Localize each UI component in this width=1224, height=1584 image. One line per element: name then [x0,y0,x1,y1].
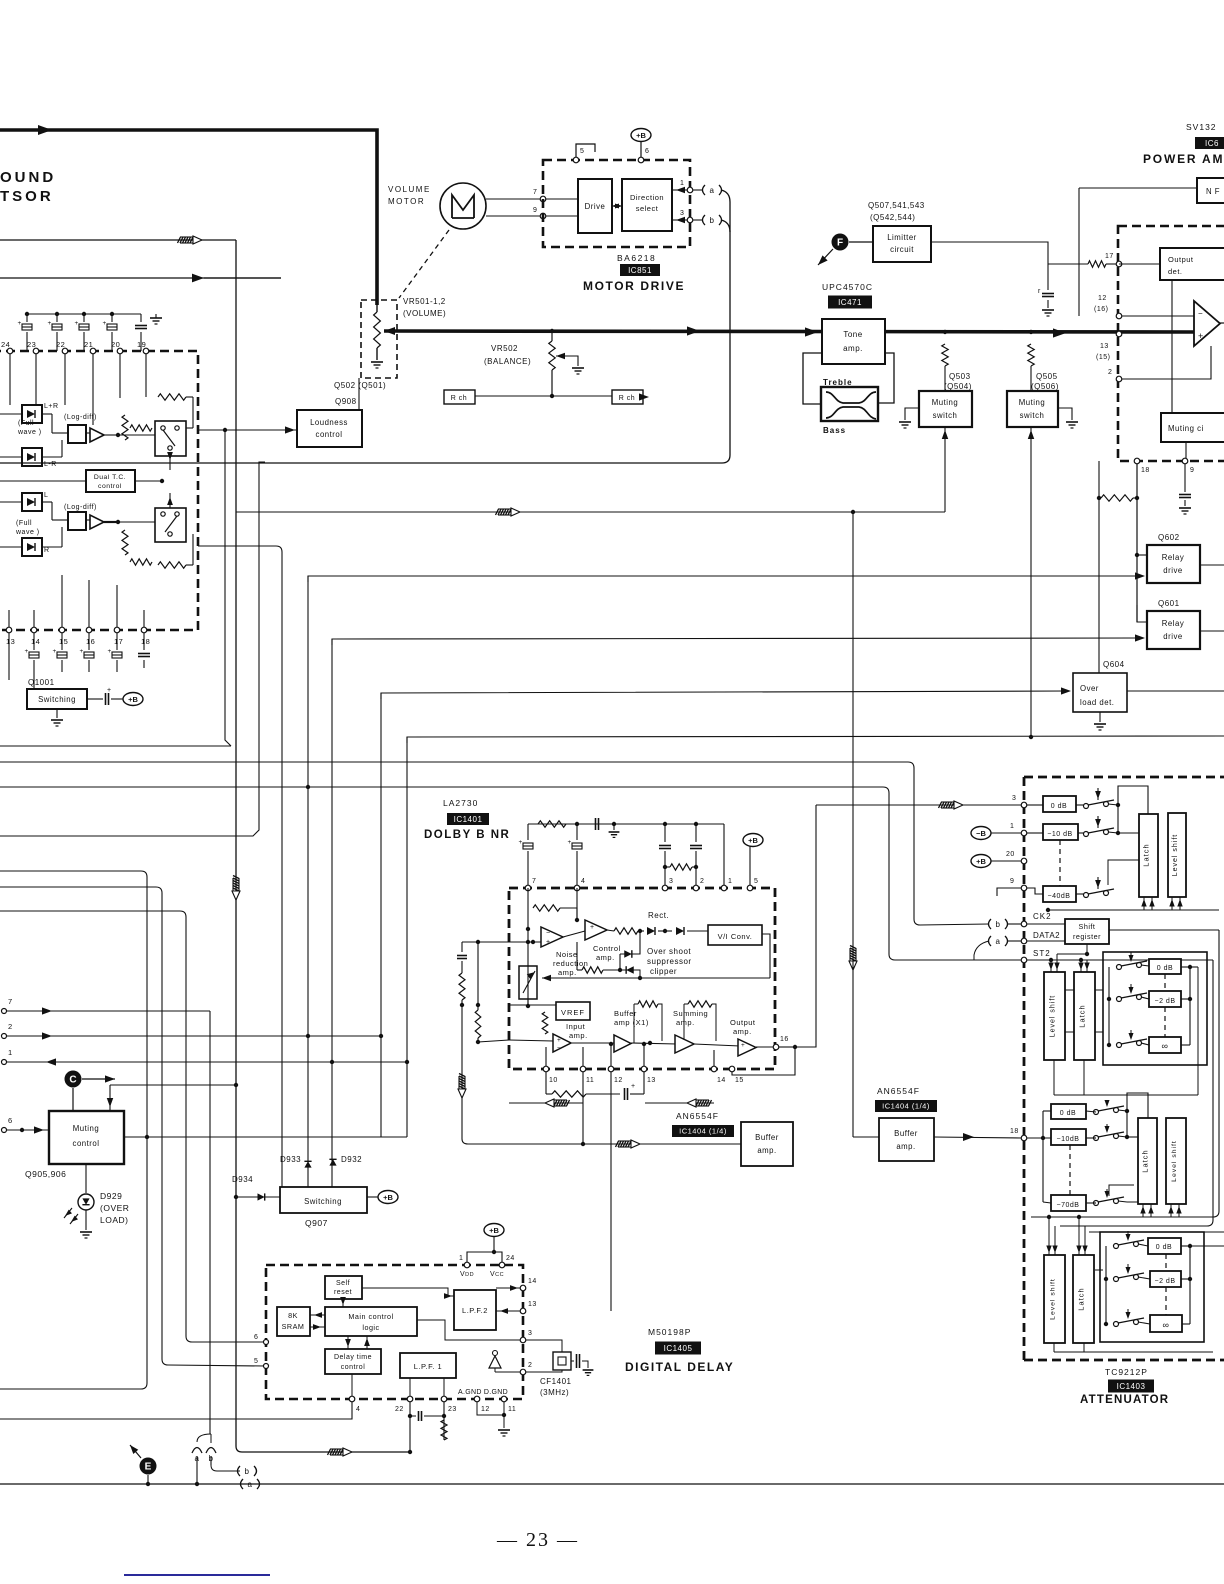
svg-text:1: 1 [8,1048,13,1057]
svg-text:+B: +B [383,1193,393,1202]
svg-text:ST2: ST2 [1033,949,1051,958]
svg-text:Loudness: Loudness [310,418,348,427]
svg-text:Q602: Q602 [1158,533,1180,542]
svg-text:0 dB: 0 dB [1060,1110,1076,1117]
svg-text:IC1405: IC1405 [664,1344,693,1353]
svg-text:−B: −B [976,829,986,838]
svg-text:D933: D933 [280,1155,301,1164]
svg-text:Level shift: Level shift [1050,1278,1057,1320]
svg-text:+: + [519,839,523,846]
svg-text:wave ): wave ) [17,429,42,436]
svg-text:D929: D929 [100,1191,122,1201]
svg-text:a: a [248,1480,253,1489]
svg-text:MOTOR DRIVE: MOTOR DRIVE [583,279,685,293]
svg-text:∞: ∞ [1162,1041,1169,1051]
svg-text:Main control: Main control [348,1312,393,1321]
svg-text:5: 5 [754,878,758,885]
svg-text:Treble: Treble [823,378,853,387]
svg-text:9: 9 [533,207,537,214]
svg-text:IC471: IC471 [838,298,862,307]
svg-text:amp.: amp. [757,1146,776,1155]
svg-text:wave ): wave ) [15,529,40,536]
svg-text:IC1404 (1/4): IC1404 (1/4) [882,1102,930,1111]
svg-text:M50198P: M50198P [648,1327,691,1337]
svg-text:12: 12 [614,1077,623,1084]
svg-text:Q908: Q908 [335,397,357,406]
svg-text:IC1404 (1/4): IC1404 (1/4) [679,1127,727,1136]
svg-text:−: − [546,930,551,937]
svg-text:−: − [557,1045,561,1052]
svg-text:(Q542,544): (Q542,544) [870,213,915,222]
svg-text:(Log-diff): (Log-diff) [64,414,97,421]
svg-text:+: + [48,320,52,327]
svg-text:SRAM: SRAM [282,1322,305,1331]
svg-text:1: 1 [459,1255,463,1262]
svg-text:18: 18 [141,637,150,646]
svg-text:E: E [145,1462,152,1473]
svg-text:13: 13 [6,637,15,646]
svg-text:9: 9 [1010,878,1014,885]
svg-text:Q507,541,543: Q507,541,543 [868,201,925,210]
svg-text:17: 17 [114,637,123,646]
svg-text:VOLUME: VOLUME [388,185,431,194]
svg-text:Level shift: Level shift [1172,834,1179,877]
svg-text:Switching: Switching [38,695,76,704]
svg-text:2: 2 [700,878,704,885]
svg-text:+: + [80,648,84,655]
svg-text:DIGITAL DELAY: DIGITAL DELAY [625,1360,734,1374]
svg-text:Level shift: Level shift [1050,995,1057,1038]
svg-text:TC9212P: TC9212P [1105,1367,1148,1377]
svg-text:(Full: (Full [16,520,32,527]
svg-text:5: 5 [254,1358,258,1365]
svg-text:3: 3 [669,878,673,885]
svg-text:−2 dB: −2 dB [1155,998,1176,1005]
svg-text:6: 6 [645,148,649,155]
svg-text:+: + [590,924,595,931]
svg-text:(VOLUME): (VOLUME) [403,309,446,318]
svg-text:4: 4 [581,878,585,885]
svg-text:— 23 —: — 23 — [496,1529,579,1551]
svg-text:0 dB: 0 dB [1051,803,1067,810]
svg-text:13: 13 [1100,343,1109,350]
svg-text:Limitter: Limitter [887,233,917,242]
svg-text:+: + [25,648,29,655]
svg-text:IC851: IC851 [628,266,652,275]
svg-text:Q907: Q907 [305,1218,328,1228]
svg-text:−40dB: −40dB [1048,893,1071,900]
svg-text:5: 5 [580,148,584,155]
svg-text:Q502 (Q501): Q502 (Q501) [334,381,386,390]
svg-text:∞: ∞ [1163,1320,1170,1330]
svg-text:Latch: Latch [1077,1287,1086,1310]
svg-text:Relay: Relay [1162,619,1184,628]
svg-text:(Q504): (Q504) [944,382,972,391]
svg-text:r: r [1038,288,1041,295]
svg-text:BA6218: BA6218 [617,253,656,263]
svg-text:Relay: Relay [1162,553,1184,562]
svg-text:IC6: IC6 [1205,139,1219,148]
svg-text:15: 15 [59,637,68,646]
svg-text:(OVER: (OVER [100,1203,129,1213]
svg-text:amp.: amp. [596,953,615,962]
svg-text:14: 14 [528,1278,537,1285]
svg-text:(16): (16) [1094,306,1108,313]
svg-text:R: R [44,547,50,554]
svg-text:17: 17 [1105,253,1114,260]
svg-text:−70dB: −70dB [1057,1202,1080,1209]
svg-text:Control: Control [593,944,621,953]
svg-text:16: 16 [86,637,95,646]
svg-text:control: control [341,1364,366,1371]
svg-text:Delay time: Delay time [334,1354,372,1361]
svg-text:(3MHz): (3MHz) [540,1388,569,1397]
svg-text:21: 21 [84,340,93,349]
svg-text:b: b [996,920,1001,929]
svg-text:+B: +B [748,836,758,845]
svg-text:0 dB: 0 dB [1157,965,1173,972]
svg-text:L.P.F. 1: L.P.F. 1 [414,1362,442,1371]
svg-text:Shift: Shift [1079,922,1096,931]
svg-text:CF1401: CF1401 [540,1377,572,1386]
svg-text:control: control [98,483,122,490]
svg-text:Q601: Q601 [1158,599,1180,608]
svg-text:20: 20 [1006,851,1015,858]
svg-text:14: 14 [31,637,40,646]
svg-text:+B: +B [976,857,986,866]
svg-text:L+R: L+R [44,403,59,410]
svg-text:7: 7 [532,878,536,885]
svg-text:Level shift: Level shift [1171,1140,1178,1182]
svg-text:6: 6 [8,1116,13,1125]
svg-text:+: + [741,1042,745,1049]
svg-text:(15): (15) [1096,354,1110,361]
svg-text:Output: Output [730,1018,756,1027]
svg-text:MOTOR: MOTOR [388,197,425,206]
svg-text:C: C [69,1075,76,1086]
svg-text:LOAD): LOAD) [100,1215,128,1225]
svg-text:R ch: R ch [619,395,635,402]
svg-text:Q505: Q505 [1036,372,1058,381]
svg-text:14: 14 [717,1077,726,1084]
svg-text:Summing: Summing [673,1009,708,1018]
svg-text:reduction: reduction [553,959,588,968]
svg-text:Latch: Latch [1142,843,1151,866]
svg-text:D932: D932 [341,1155,362,1164]
svg-text:2: 2 [1108,369,1112,376]
svg-text:Dual T.C.: Dual T.C. [94,474,126,481]
svg-text:UPC4570C: UPC4570C [822,282,873,292]
svg-text:(Full: (Full [18,420,34,427]
svg-text:2: 2 [8,1022,13,1031]
svg-text:IC1401: IC1401 [454,815,483,824]
svg-text:Latch: Latch [1078,1004,1087,1027]
svg-text:logic: logic [362,1323,379,1332]
svg-text:Latch: Latch [1141,1149,1150,1172]
svg-text:Output: Output [1168,255,1194,264]
svg-text:1: 1 [728,878,732,885]
svg-text:det.: det. [1168,267,1183,276]
svg-text:0 dB: 0 dB [1156,1244,1172,1251]
svg-text:6: 6 [254,1334,258,1341]
svg-text:N F: N F [1206,187,1220,196]
svg-text:Over: Over [1080,684,1099,693]
svg-text:8K: 8K [288,1311,298,1320]
svg-text:Buffer: Buffer [614,1009,637,1018]
svg-text:select: select [636,204,659,213]
svg-text:(Q506): (Q506) [1031,382,1059,391]
svg-text:12: 12 [1098,295,1107,302]
svg-text:+B: +B [489,1226,499,1235]
svg-text:+: + [546,939,551,946]
svg-text:4: 4 [356,1406,360,1413]
svg-text:POWER AM: POWER AM [1143,152,1224,166]
svg-text:12: 12 [481,1406,490,1413]
svg-text:a: a [996,937,1001,946]
svg-text:19: 19 [137,340,146,349]
svg-text:amp (X1): amp (X1) [614,1018,649,1027]
svg-text:AN6554F: AN6554F [877,1086,920,1096]
svg-text:(BALANCE): (BALANCE) [484,357,531,366]
svg-text:control: control [73,1139,100,1148]
svg-text:24: 24 [506,1255,515,1262]
svg-text:Q1001: Q1001 [28,678,55,687]
svg-text:+: + [103,320,107,327]
svg-text:drive: drive [1163,632,1182,641]
svg-text:Q503: Q503 [949,372,971,381]
svg-text:Drive: Drive [585,202,606,211]
svg-text:amp.: amp. [843,344,863,353]
svg-text:+B: +B [636,131,646,140]
svg-text:Muting: Muting [932,398,958,407]
svg-text:23: 23 [27,340,36,349]
svg-text:7: 7 [8,997,13,1006]
svg-text:VR501-1,2: VR501-1,2 [403,297,446,306]
svg-text:amp.: amp. [558,968,577,977]
svg-text:−10dB: −10dB [1057,1136,1080,1143]
svg-text:23: 23 [448,1406,457,1413]
svg-text:+: + [1198,331,1204,341]
svg-text:3: 3 [680,210,684,217]
svg-text:amp.: amp. [676,1018,695,1027]
svg-text:Direction: Direction [630,193,664,202]
svg-text:16: 16 [780,1036,789,1043]
svg-text:10: 10 [549,1077,558,1084]
svg-text:DATA2: DATA2 [1033,931,1060,940]
svg-text:Buffer: Buffer [755,1133,779,1142]
svg-text:A.GND D.GND: A.GND D.GND [458,1389,508,1396]
svg-text:3: 3 [1012,795,1016,802]
svg-text:Rect.: Rect. [648,911,669,920]
svg-text:Input: Input [566,1022,586,1031]
svg-text:Muting ci: Muting ci [1168,424,1204,433]
svg-text:+: + [75,320,79,327]
svg-text:CK2: CK2 [1033,912,1052,921]
svg-text:b: b [710,216,715,225]
svg-text:1: 1 [680,180,684,187]
svg-text:13: 13 [528,1301,537,1308]
svg-text:7: 7 [533,189,537,196]
svg-text:+: + [568,839,572,846]
svg-text:switch: switch [1020,411,1045,420]
svg-text:1: 1 [1010,823,1014,830]
svg-text:IC1403: IC1403 [1117,1382,1146,1391]
svg-text:suppressor: suppressor [647,957,692,966]
svg-text:Bass: Bass [823,426,846,435]
svg-text:11: 11 [508,1406,516,1413]
svg-text:ATTENUATOR: ATTENUATOR [1080,1394,1169,1406]
svg-text:Noise: Noise [556,950,578,959]
svg-text:15: 15 [735,1077,744,1084]
svg-text:+: + [557,1037,561,1044]
svg-text:18: 18 [1010,1128,1019,1135]
svg-text:+: + [631,1083,636,1090]
svg-text:Q604: Q604 [1103,660,1125,669]
svg-text:load det.: load det. [1080,698,1114,707]
svg-text:Tone: Tone [843,330,862,339]
svg-text:Muting: Muting [1019,398,1045,407]
svg-text:DOLBY B NR: DOLBY B NR [424,829,510,841]
svg-text:+: + [108,648,112,655]
svg-text:R ch: R ch [451,395,467,402]
svg-text:TSOR: TSOR [0,188,54,205]
svg-text:24: 24 [1,340,10,349]
svg-text:(Log-diff): (Log-diff) [64,504,97,511]
svg-text:+: + [53,648,57,655]
svg-text:−10 dB: −10 dB [1047,831,1072,838]
svg-text:clipper: clipper [650,967,677,976]
svg-text:drive: drive [1163,566,1182,575]
svg-text:AN6554F: AN6554F [676,1111,719,1121]
svg-text:reset: reset [334,1289,352,1296]
svg-text:D934: D934 [232,1175,253,1184]
svg-text:OUND: OUND [0,169,56,186]
svg-text:L: L [44,492,48,499]
svg-text:L-R: L-R [44,461,57,468]
svg-text:2: 2 [528,1362,532,1369]
svg-text:13: 13 [647,1077,656,1084]
svg-text:V/I Conv.: V/I Conv. [718,932,753,941]
svg-text:18: 18 [1141,467,1150,474]
svg-text:amp.: amp. [896,1142,915,1151]
svg-text:L.P.F.2: L.P.F.2 [462,1306,488,1315]
svg-text:amp.: amp. [733,1027,752,1036]
svg-text:22: 22 [395,1406,404,1413]
svg-text:Buffer: Buffer [894,1129,918,1138]
svg-text:register: register [1073,932,1101,941]
svg-text:−: − [1198,309,1203,318]
svg-text:+B: +B [128,695,138,704]
svg-text:F: F [837,238,843,249]
svg-text:Q905,906: Q905,906 [25,1169,66,1179]
svg-text:Switching: Switching [304,1197,342,1206]
svg-text:SV132: SV132 [1186,122,1217,132]
svg-text:Muting: Muting [73,1124,99,1133]
svg-text:+: + [107,687,112,694]
svg-text:amp.: amp. [569,1031,588,1040]
svg-text:a: a [710,186,715,195]
svg-text:Self: Self [336,1280,350,1287]
svg-text:control: control [316,430,343,439]
svg-text:VCC: VCC [490,1271,504,1278]
svg-text:circuit: circuit [890,245,914,254]
svg-text:VDD: VDD [460,1271,474,1278]
svg-text:9: 9 [1190,467,1194,474]
svg-text:Over shoot: Over shoot [647,947,691,956]
svg-text:LA2730: LA2730 [443,798,478,808]
svg-text:−2 dB: −2 dB [1155,1278,1176,1285]
svg-text:+: + [18,320,22,327]
svg-text:11: 11 [586,1077,594,1084]
svg-text:VR502: VR502 [491,344,518,353]
svg-text:switch: switch [933,411,958,420]
svg-text:3: 3 [528,1330,532,1337]
svg-text:VREF: VREF [561,1008,585,1017]
svg-text:b: b [245,1467,250,1476]
